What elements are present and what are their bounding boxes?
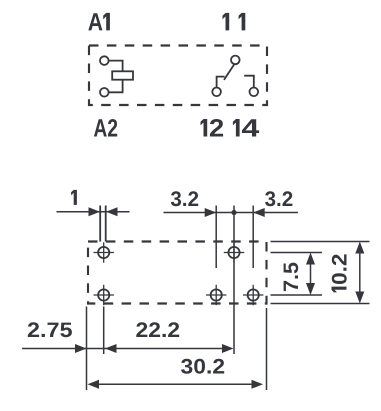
dim 10.2 arrow — [359, 246, 361, 299]
contact terminal 12 — [212, 88, 221, 97]
label A2 — [94, 119, 117, 137]
dim 30.2 arrow — [92, 383, 259, 385]
contact terminal 14 — [250, 88, 259, 97]
dimension label 2.75 — [28, 322, 72, 337]
extension line pin 12 column — [215, 206, 217, 269]
coil — [112, 71, 133, 79]
wire terminal 12 — [217, 77, 225, 88]
dimension label 22.2 — [136, 322, 179, 337]
label 12 — [201, 119, 208, 137]
dim 22.2 arrow — [105, 344, 117, 353]
extension line pin 14 column — [252, 206, 254, 269]
extension line body right edge — [266, 308, 268, 390]
hole 14 — [243, 285, 263, 305]
wire terminal 14 — [244, 76, 254, 88]
extension line body left edge — [86, 307, 88, 391]
dim 2.75 arrow — [22, 348, 230, 350]
extension line top edge right — [271, 241, 370, 243]
wire A1 to coil — [109, 61, 123, 72]
extension line bottom edge right — [271, 303, 370, 305]
extension line pin A column below — [103, 307, 105, 355]
label A1 — [88, 13, 102, 30]
dim-1 left arrow — [57, 211, 130, 213]
dimension label 3.2 left — [171, 191, 198, 206]
dimension label 1 — [71, 190, 77, 205]
pin width extension lines — [99, 206, 101, 242]
extension line bottom hole row — [271, 294, 323, 296]
hole A1 — [94, 242, 114, 262]
hole A2 — [94, 285, 114, 305]
relay outline (dashed box, wiring diagram) — [89, 46, 267, 106]
shared dimension dot — [231, 210, 236, 215]
dim-3.2-left arrow line — [164, 212, 299, 214]
label 11 — [223, 13, 230, 31]
dim 7.5 arrow — [310, 257, 312, 291]
dimension label 10.2 — [332, 254, 347, 292]
dimension label 7.5 — [284, 263, 299, 292]
label 14 — [233, 119, 240, 137]
coil terminal A2 — [100, 88, 109, 97]
hole 12 — [206, 285, 226, 305]
movable contact arm — [224, 64, 235, 80]
footprint outline (dashed box) — [88, 242, 267, 304]
coil terminal A1 — [100, 56, 109, 65]
wire A2 to coil — [109, 80, 123, 93]
contact terminal 11 — [231, 56, 240, 65]
extension line pin 11 column — [233, 206, 235, 355]
dim-3.2-right arrow line — [253, 208, 265, 217]
dimension label 3.2 right — [265, 191, 292, 206]
dimension label 30.2 — [181, 359, 224, 374]
dim-1 right arrow — [106, 207, 118, 216]
hole 11 — [224, 242, 244, 262]
extension line top hole row — [271, 252, 323, 254]
